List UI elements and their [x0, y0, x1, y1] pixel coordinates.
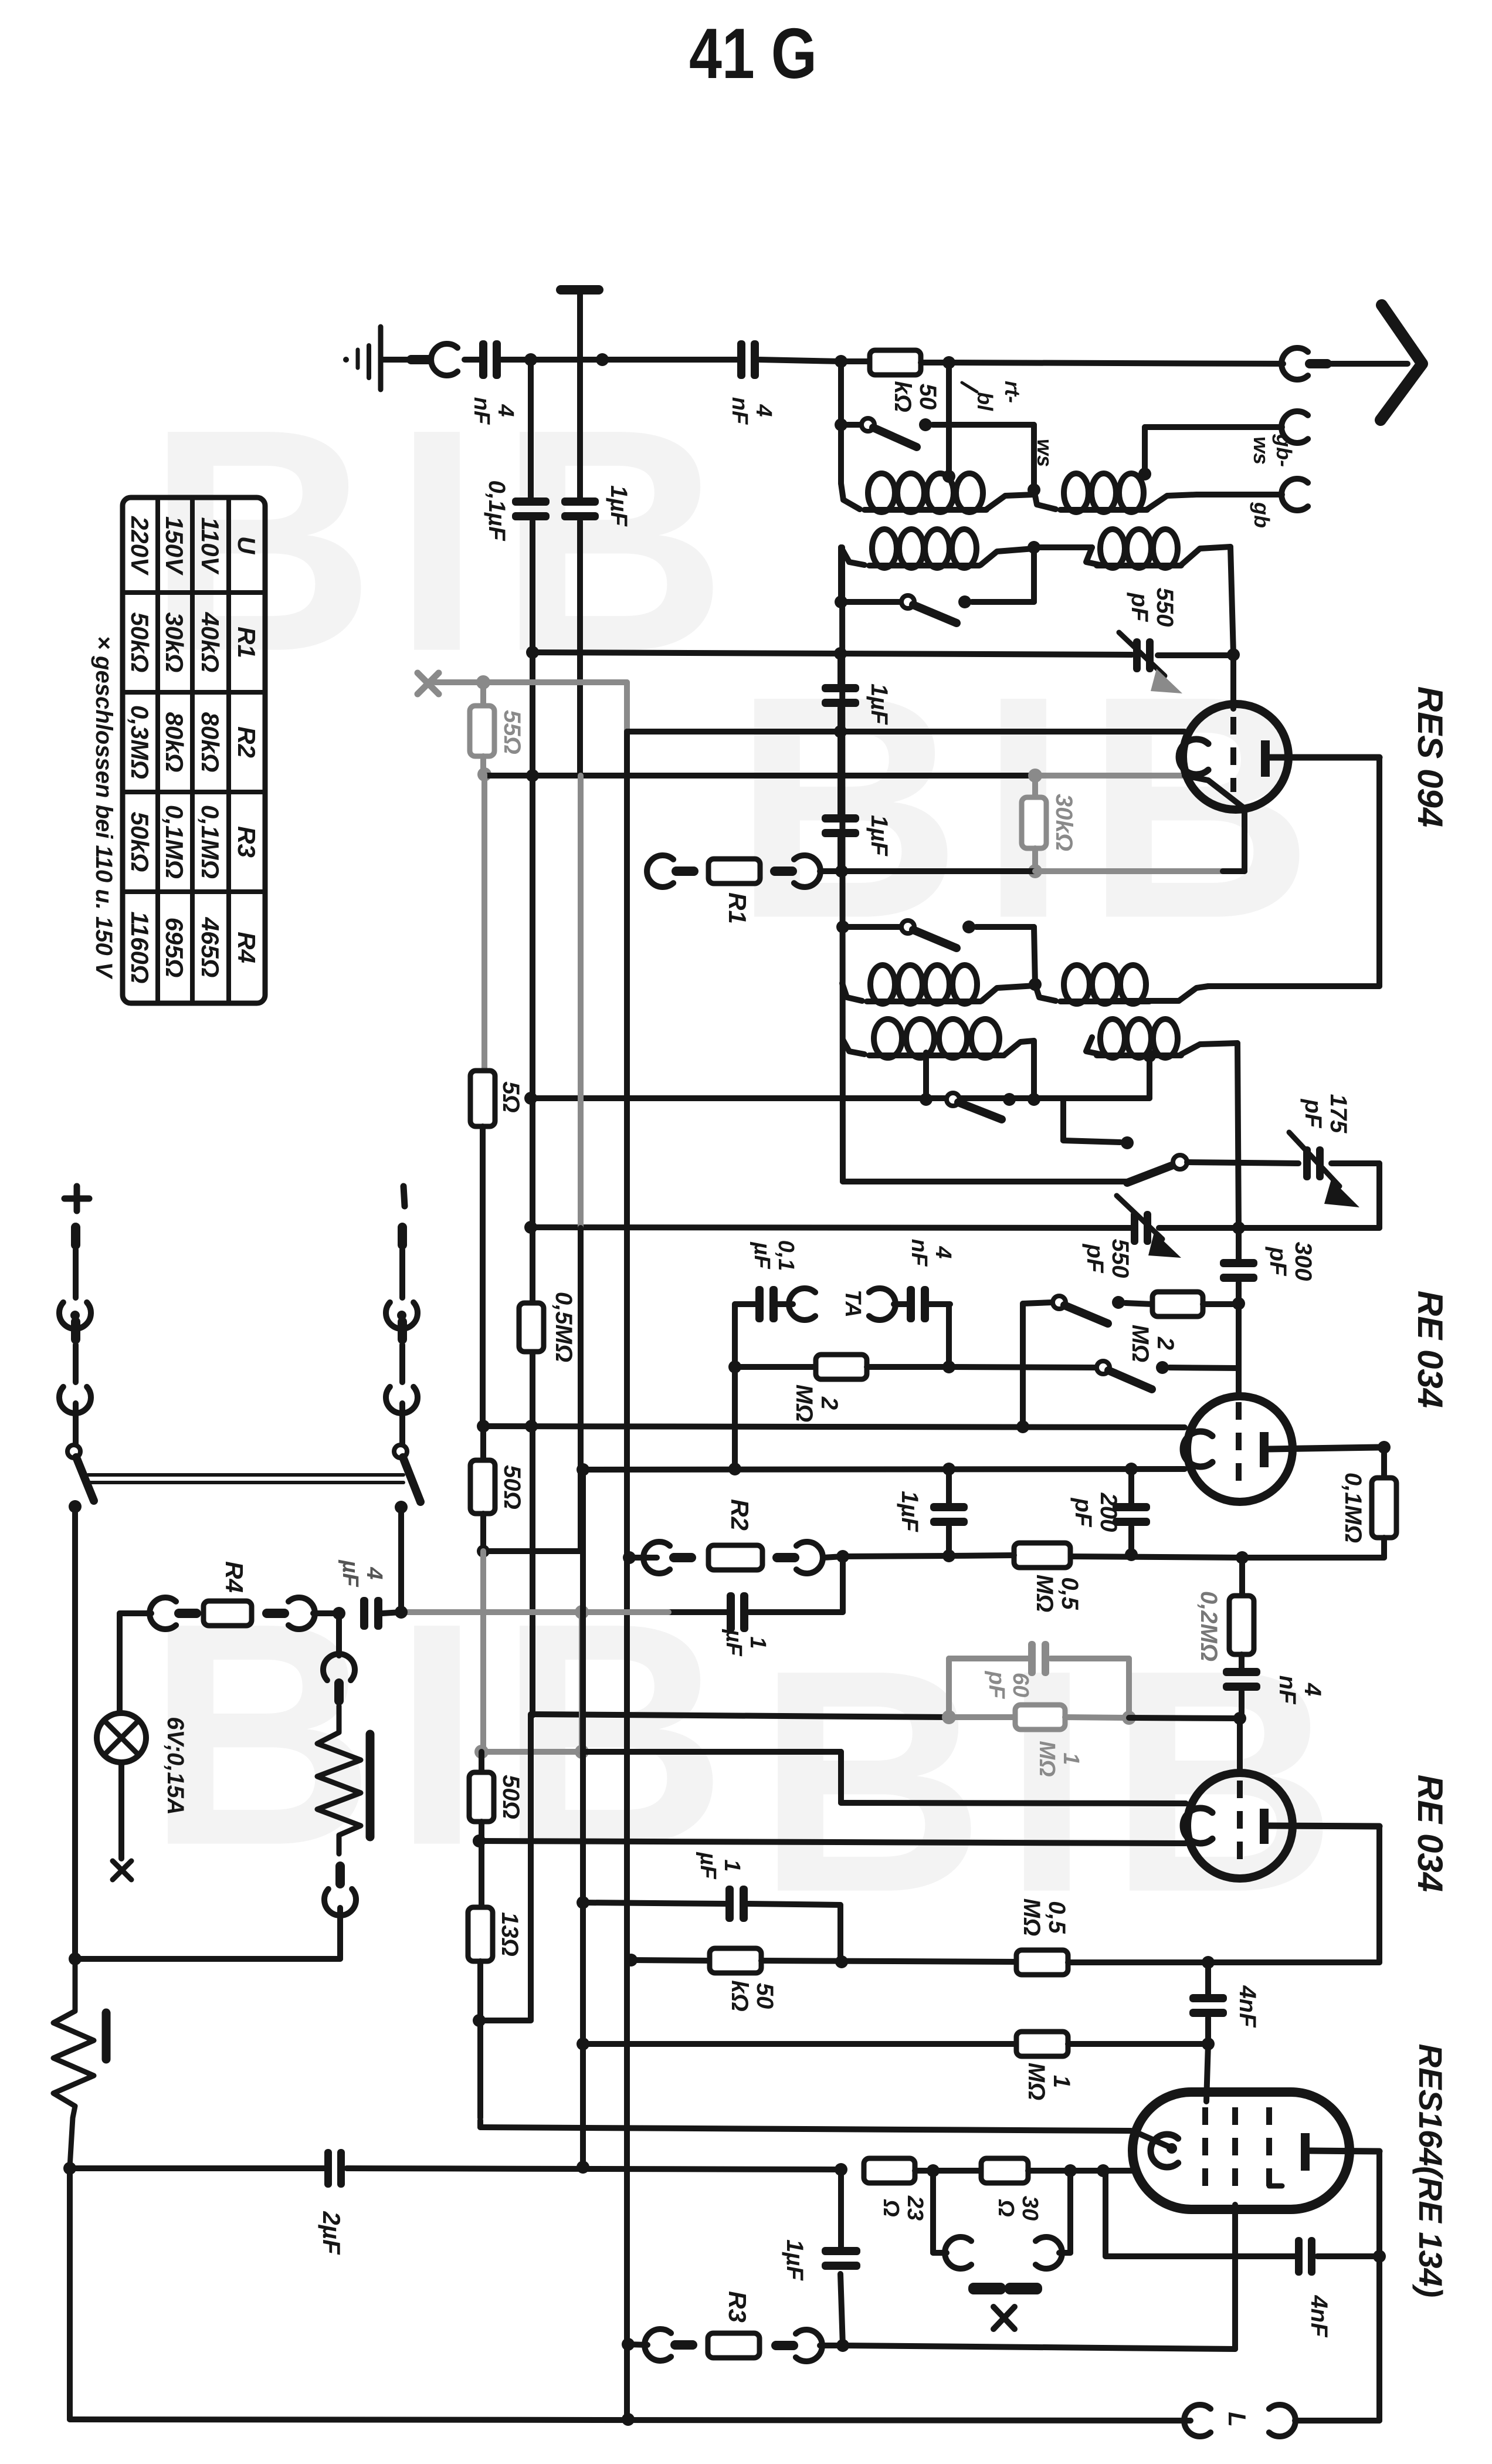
- wire v990 gray: [578, 776, 584, 1228]
- svg-text:80kΩ: 80kΩ: [196, 712, 224, 773]
- jack: [323, 1654, 355, 1680]
- resistor 50Ω a: [470, 1426, 525, 1558]
- svg-text:TA: TA: [840, 1289, 865, 1318]
- grid RE034a: [1236, 1402, 1242, 1490]
- wire: [501, 353, 738, 366]
- capacitor 4uF: [338, 1559, 401, 1630]
- bus 2093: [524, 1221, 1379, 1234]
- capacitor 4nF d: [1189, 1962, 1260, 2050]
- svg-text:465Ω: 465Ω: [196, 917, 224, 978]
- svg-text:L: L: [1223, 2412, 1251, 2427]
- resistor 50Ω b: [469, 1752, 524, 1907]
- resistor 30kΩ gray: [1022, 776, 1077, 878]
- svg-text:R3: R3: [233, 826, 260, 858]
- wire: [395, 1507, 408, 1619]
- wire: [70, 2168, 1191, 2421]
- coil L3b: [1035, 965, 1208, 1004]
- svg-text:RE 034: RE 034: [1410, 1291, 1450, 1408]
- node x: [530, 521, 535, 1715]
- wire: [986, 495, 1034, 509]
- jack gb-ws: [1249, 411, 1308, 467]
- wire: [1331, 361, 1408, 367]
- svg-text:60pF: 60pF: [984, 1671, 1033, 1700]
- wire: [624, 732, 630, 2419]
- capacitor 1uF a: [822, 654, 892, 732]
- svg-text:R2: R2: [233, 726, 260, 758]
- svg-text:ws: ws: [1033, 439, 1057, 467]
- svg-text:1µF: 1µF: [866, 683, 892, 725]
- capacitor 4nF: [469, 340, 518, 425]
- anode wire b: [1202, 1826, 1379, 1969]
- node: [63, 2162, 76, 2175]
- resistor R4: [120, 1561, 345, 1629]
- label RES164: [1412, 2044, 1449, 2298]
- svg-text:0,1µF: 0,1µF: [750, 1240, 798, 1271]
- wire: [1295, 2256, 1379, 2421]
- bus 2926: [531, 1714, 949, 1717]
- svg-text:gb: gb: [1250, 502, 1274, 528]
- capacitor 1uF mid: [897, 1469, 968, 1562]
- coil L2b: [1034, 529, 1230, 568]
- svg-text:30kΩ: 30kΩ: [1051, 794, 1077, 851]
- grid RES094: [1230, 655, 1236, 792]
- wire ws: [933, 425, 1040, 496]
- resistor R1: [647, 855, 820, 924]
- svg-text:0,5MΩ: 0,5MΩ: [1032, 1575, 1083, 1613]
- resistor 0,5MΩ mid: [949, 1543, 1083, 1612]
- svg-text:50kΩ: 50kΩ: [126, 612, 154, 673]
- plug: [334, 1678, 344, 1705]
- svg-text:13Ω: 13Ω: [497, 1912, 523, 1957]
- svg-text:RE 034: RE 034: [1410, 1775, 1450, 1892]
- resistor 55Ω gray: [470, 682, 525, 781]
- wire anode: [1373, 2151, 1386, 2263]
- bus 1485: [820, 811, 1245, 878]
- watermark: [147, 364, 1355, 1958]
- label RES094: [1410, 686, 1450, 827]
- svg-text:0,1µF: 0,1µF: [484, 480, 510, 541]
- coil L2a: [841, 529, 1040, 568]
- resistor 2MΩ a: [735, 1355, 949, 1422]
- wire: [1237, 1043, 1239, 1228]
- note geschlossen: [91, 636, 117, 980]
- svg-text:R1: R1: [724, 892, 751, 924]
- svg-text:× geschlossen bei 110 u. 150 V: × geschlossen bei 110 u. 150 V: [91, 636, 117, 980]
- combo gray: [942, 1641, 1129, 1724]
- resistor 50kΩ top: [841, 350, 955, 412]
- svg-text:23Ω: 23Ω: [879, 2195, 927, 2221]
- wire: [759, 355, 847, 368]
- wire: [479, 1714, 531, 2020]
- mark x lamp: [113, 1861, 131, 1880]
- svg-text:R1: R1: [233, 627, 260, 658]
- svg-text:1µF: 1µF: [866, 815, 892, 857]
- bus 3484: [577, 2037, 1016, 2050]
- svg-text:R4: R4: [233, 932, 260, 963]
- svg-text:550pF: 550pF: [1127, 588, 1178, 627]
- svg-text:0,2MΩ: 0,2MΩ: [1196, 1591, 1222, 1661]
- wire gray: [435, 675, 627, 732]
- resistor 0,5MΩ low: [1016, 1898, 1208, 1975]
- resistor 2MΩ b: [1125, 1292, 1239, 1362]
- wire: [842, 547, 843, 1182]
- svg-text:R2: R2: [726, 1499, 754, 1531]
- bus 1874: [524, 1092, 1149, 1105]
- switch6: [1023, 1296, 1125, 1427]
- svg-text:55Ω: 55Ω: [499, 710, 525, 754]
- label ws: [1033, 439, 1057, 467]
- jack R2 left: [643, 1542, 670, 1573]
- capacitor 1uF b: [822, 732, 892, 871]
- svg-text:550pF: 550pF: [1082, 1239, 1133, 1278]
- svg-text:5Ω: 5Ω: [498, 1081, 524, 1112]
- node: [622, 2413, 635, 2426]
- wire: [118, 1762, 124, 1859]
- wire: [69, 1908, 340, 1965]
- bus 2653: [1070, 1551, 1384, 1564]
- minus terminal: [403, 1186, 405, 1206]
- coil L3a: [842, 965, 1035, 1004]
- svg-text:175pF: 175pF: [1300, 1094, 1351, 1133]
- svg-text:50Ω: 50Ω: [498, 1775, 524, 1819]
- jack pair: [933, 2171, 1070, 2269]
- svg-text:40kΩ: 40kΩ: [196, 612, 224, 673]
- capacitor 0,1uF: [484, 360, 550, 541]
- wire: [835, 547, 847, 608]
- label TA: [840, 1289, 865, 1318]
- switch rt-bl: [841, 418, 932, 447]
- coil L4b: [1086, 1019, 1237, 1098]
- antenna: [1381, 305, 1422, 420]
- bus 1322: [484, 769, 1185, 783]
- svg-text:gb-ws: gb-ws: [1249, 434, 1296, 467]
- label RE034 b: [1410, 1775, 1450, 1892]
- svg-text:150V: 150V: [161, 516, 188, 576]
- tap4: [920, 1052, 933, 1106]
- switch7: [1097, 1304, 1239, 1395]
- switch4: [947, 1093, 1016, 1119]
- switch3: [836, 920, 1042, 991]
- bus 2986: [474, 1745, 1186, 1803]
- resistor 13Ω: [468, 1907, 523, 2027]
- svg-text:50kΩ: 50kΩ: [727, 1980, 778, 2011]
- svg-text:1µF: 1µF: [897, 1491, 923, 1532]
- svg-text:110V: 110V: [196, 517, 224, 575]
- svg-text:0,5MΩ: 0,5MΩ: [551, 1292, 577, 1362]
- wire: [72, 1507, 78, 1959]
- svg-text:50kΩ: 50kΩ: [890, 381, 941, 412]
- capacitor 1uF: [561, 360, 632, 776]
- tube RE034 a: [1183, 1396, 1379, 1502]
- wire: [480, 2020, 1131, 2131]
- capacitor 1uF low: [669, 1592, 843, 1657]
- switch5: [1063, 1099, 1187, 1183]
- wire to antenna: [949, 363, 1283, 364]
- label RE034 a: [1410, 1291, 1450, 1408]
- grids RES164: [1205, 2107, 1282, 2349]
- jack: [431, 344, 457, 375]
- wire: [838, 425, 844, 483]
- svg-text:U: U: [233, 536, 260, 555]
- wire grid1 RES164: [1206, 2044, 1208, 2101]
- voltage/resistor table: [123, 497, 265, 1003]
- capacitor 4nF TA: [894, 1239, 955, 1322]
- battery chain -: [386, 1223, 418, 1444]
- svg-text:30Ω: 30Ω: [993, 2196, 1042, 2221]
- wire gray2: [480, 1551, 486, 1752]
- resistor 0,5MΩ upper: [519, 1292, 577, 1362]
- wire gb: [1147, 495, 1282, 509]
- switch2: [841, 547, 1034, 623]
- plus terminal: [65, 1186, 89, 1211]
- plug: [406, 355, 433, 364]
- svg-text:695Ω: 695Ω: [161, 918, 188, 978]
- svg-text:1µF: 1µF: [606, 485, 632, 527]
- jack TA R: [869, 1288, 896, 1320]
- tube RES164: [1132, 2092, 1379, 2209]
- svg-text:0,1MΩ: 0,1MΩ: [1340, 1473, 1366, 1543]
- wire v990: [578, 1228, 584, 1470]
- wire gb-ws: [1145, 427, 1282, 474]
- svg-text:50Ω: 50Ω: [499, 1465, 525, 1509]
- ground: [343, 327, 381, 390]
- svg-text:RES 094: RES 094: [1410, 686, 1450, 827]
- battery chain +: [59, 1223, 91, 1444]
- coil L1a: [841, 473, 986, 512]
- lamp feed: [117, 1613, 123, 1713]
- resistor 30Ω: [933, 2158, 1132, 2221]
- capacitor 4nF e: [1295, 2237, 1379, 2338]
- capacitor 2uF: [70, 2149, 841, 2255]
- switch batt L: [67, 1445, 94, 1513]
- bus 2432: [477, 1420, 1185, 1433]
- resistor 0,1MΩ: [1340, 1473, 1396, 1558]
- rheostat: [317, 1706, 370, 1854]
- bus 3245: [577, 1896, 725, 1909]
- wire: [623, 1551, 657, 1564]
- svg-text:0,5MΩ: 0,5MΩ: [1019, 1898, 1070, 1937]
- jack antenna: [1281, 348, 1308, 380]
- wire: [464, 357, 479, 363]
- wire gray: [481, 774, 487, 1071]
- wire: [835, 361, 847, 431]
- bus 2504: [577, 1463, 1185, 1476]
- bus 2332: [949, 1367, 1096, 1368]
- gray drop: [401, 1605, 669, 1752]
- wire 175pF: [1187, 1162, 1379, 1228]
- capacitor 550pF var2: [1082, 1196, 1181, 1278]
- svg-text:1µF: 1µF: [782, 2239, 808, 2281]
- svg-text:bl: bl: [973, 392, 997, 411]
- capacitor 175pF var: [1289, 1094, 1359, 1207]
- resistor 1MΩ gray: [949, 1705, 1083, 1777]
- capacitor 200pF: [1070, 1469, 1150, 1561]
- wire bus grid1: [526, 646, 1240, 661]
- svg-text:300pF: 300pF: [1265, 1242, 1316, 1281]
- svg-text:4nF: 4nF: [1306, 2294, 1332, 2338]
- terminal T-bar: [561, 290, 599, 360]
- coil L4a: [843, 1019, 1040, 1106]
- bus 1247: [627, 725, 1185, 738]
- contact X: [968, 2283, 1042, 2329]
- svg-text:41 G: 41 G: [689, 13, 817, 93]
- svg-text:0,1MΩ: 0,1MΩ: [161, 805, 188, 879]
- wire: [1065, 1711, 1240, 1772]
- bus 3345: [625, 1948, 1016, 2012]
- switch batt R: [394, 1445, 421, 1514]
- resistor R3: [622, 2291, 849, 2361]
- pot feed: [336, 1613, 342, 1656]
- jack gb: [1250, 479, 1308, 528]
- bus 2014: [843, 1179, 1126, 1184]
- wire to grid: [1230, 547, 1233, 654]
- wire: [577, 1470, 589, 2174]
- wire: [398, 1609, 403, 1615]
- capacitor 300pF: [1220, 1228, 1316, 1310]
- node: [823, 1550, 949, 1563]
- capacitor 1uF e: [782, 2169, 860, 2281]
- resistor 0,2MΩ: [1196, 1558, 1254, 1661]
- anode wire a: [1378, 1441, 1391, 1478]
- resistor 23Ω: [835, 2158, 940, 2221]
- svg-text:R3: R3: [724, 2291, 751, 2323]
- tube RE034 b: [1183, 1773, 1379, 1879]
- svg-text:80kΩ: 80kΩ: [161, 712, 188, 773]
- gang bar: [88, 1475, 403, 1483]
- svg-text:0,3MΩ: 0,3MΩ: [126, 705, 154, 779]
- plug: [335, 1861, 345, 1888]
- svg-text:R4: R4: [221, 1561, 248, 1593]
- anode wire: [1208, 757, 1379, 986]
- svg-text:4nF: 4nF: [1235, 1985, 1260, 2028]
- jack L pair: [1184, 2405, 1296, 2436]
- wire: [383, 357, 409, 363]
- jack: [324, 1889, 356, 1915]
- bus 3140: [473, 1835, 1186, 1847]
- plug: [1305, 359, 1332, 368]
- tube RES094: [1179, 704, 1379, 810]
- svg-text:200pF: 200pF: [1070, 1492, 1121, 1532]
- mark X gray: [418, 673, 439, 694]
- capacitor 4nF c: [1223, 1654, 1325, 1718]
- svg-text:30kΩ: 30kΩ: [161, 612, 188, 673]
- svg-text:rt-: rt-: [1001, 381, 1025, 403]
- title 41 G: [689, 13, 817, 93]
- coil L1b: [1034, 468, 1151, 512]
- svg-text:1160Ω: 1160Ω: [126, 911, 154, 983]
- wire fil: [1106, 2171, 1295, 2256]
- bus 4000: [840, 2274, 1235, 2349]
- capacitor 1uF d: [696, 1852, 840, 1962]
- capacitor 4nF top2: [727, 340, 776, 425]
- svg-text:220V: 220V: [126, 516, 154, 576]
- resistor 5Ω: [470, 1071, 524, 1426]
- svg-text:0,1MΩ: 0,1MΩ: [196, 805, 224, 879]
- grid RE034b: [1237, 1781, 1243, 1871]
- lamp 6V: [97, 1713, 188, 1815]
- wire: [942, 1304, 955, 1373]
- wire: [840, 1556, 846, 1612]
- svg-text:50kΩ: 50kΩ: [126, 812, 154, 872]
- node tap1: [942, 363, 955, 483]
- rheostat filament: [53, 1959, 106, 2167]
- resistor 1MΩ low: [1016, 2032, 1208, 2100]
- resistor R2: [669, 1499, 823, 1573]
- svg-text:6V;0,15A: 6V;0,15A: [162, 1717, 188, 1815]
- svg-text:RES164(RE 134): RES164(RE 134): [1412, 2044, 1449, 2298]
- node grid2: [1233, 1712, 1246, 1725]
- wire: [728, 1304, 757, 1475]
- capacitor 550pF var: [1119, 588, 1182, 693]
- capacitor 0,1uF TA: [750, 1240, 798, 1322]
- jack TA L: [778, 1288, 815, 1320]
- label rt-bl: [962, 381, 1025, 411]
- svg-text:2µF: 2µF: [318, 2211, 345, 2255]
- wire: [483, 1470, 581, 1551]
